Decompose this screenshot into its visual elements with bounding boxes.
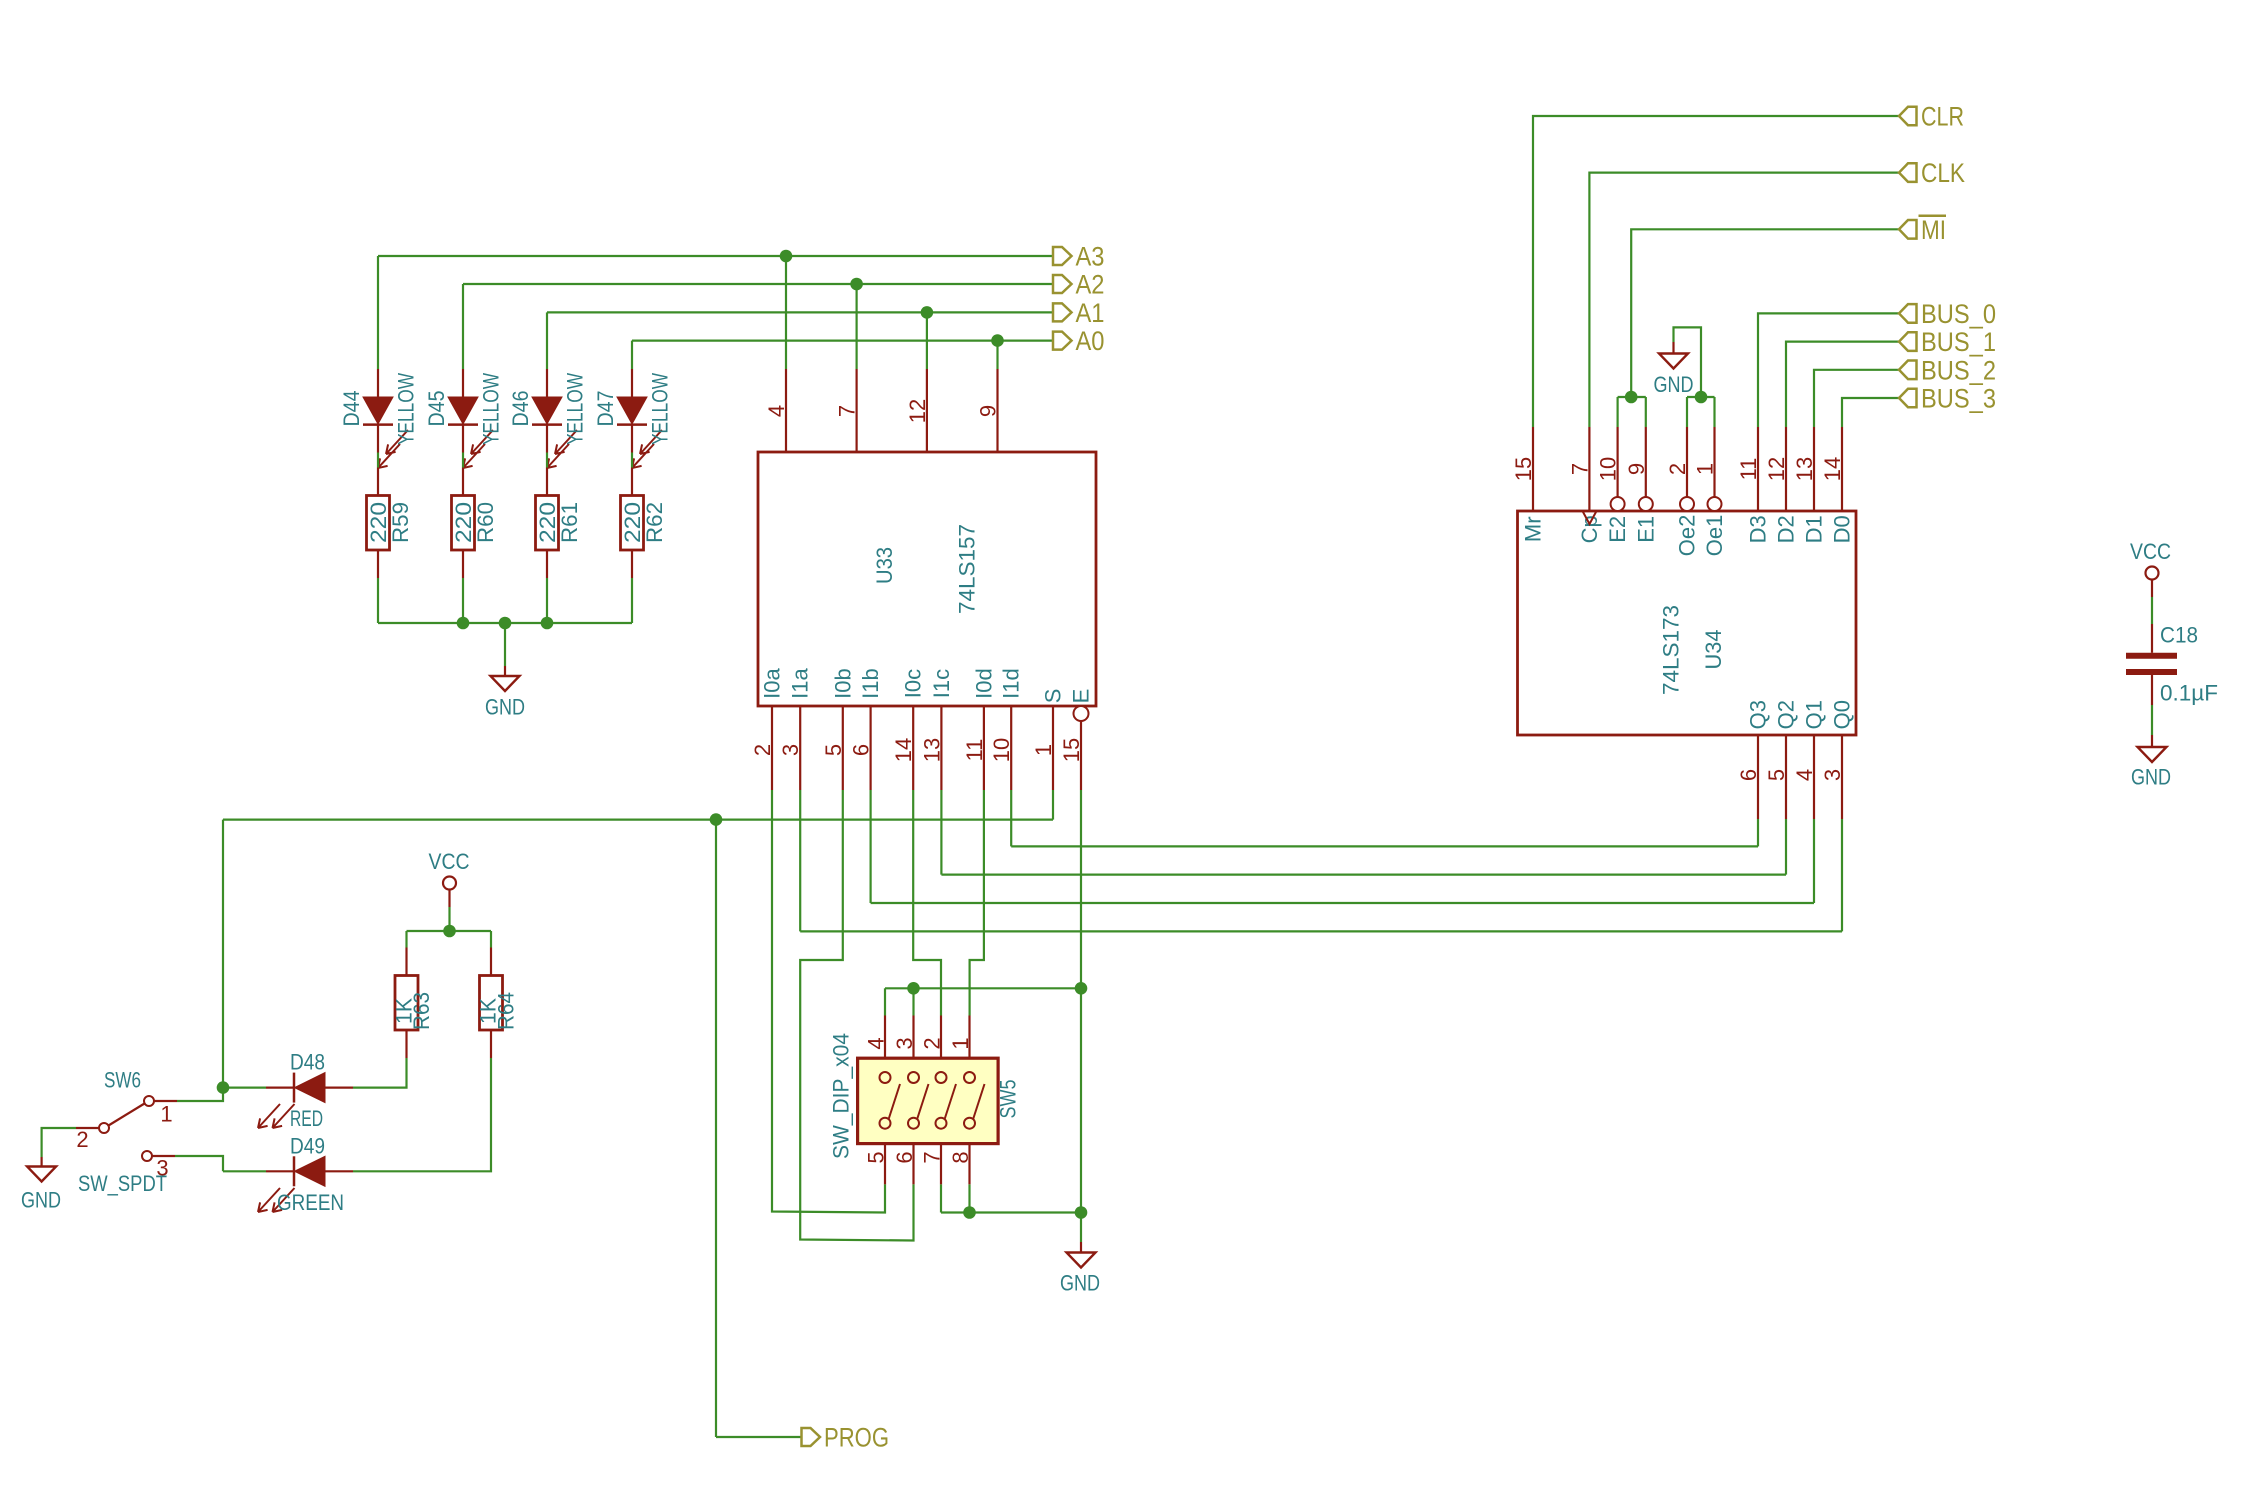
svg-text:14: 14 bbox=[891, 738, 916, 762]
resistor R60 220 bbox=[452, 468, 475, 579]
node A0 junction bbox=[991, 334, 1004, 347]
svg-text:D49: D49 bbox=[290, 1134, 325, 1159]
svg-text:VCC: VCC bbox=[429, 849, 470, 874]
wire A1 to D46 bbox=[546, 312, 548, 369]
wire net CLK bbox=[1589, 173, 1899, 427]
svg-text:6: 6 bbox=[892, 1151, 917, 1163]
svg-text:1: 1 bbox=[1693, 463, 1718, 475]
wire I1 drop Q2 to I1c bbox=[940, 790, 942, 875]
svg-text:15: 15 bbox=[1511, 457, 1536, 481]
junction bbox=[1075, 982, 1088, 995]
svg-text:GND: GND bbox=[485, 695, 525, 720]
svg-text:3: 3 bbox=[778, 744, 803, 756]
hierarchical label PROG bbox=[802, 1423, 890, 1453]
pin 7 (Zb) of U33 bbox=[855, 369, 857, 452]
svg-text:SW5: SW5 bbox=[996, 1080, 1021, 1119]
hierarchical label A0 bbox=[1053, 326, 1105, 356]
svg-text:10: 10 bbox=[1596, 457, 1621, 481]
wire net Q0 to I1a bbox=[800, 930, 1842, 932]
svg-text:5: 5 bbox=[821, 744, 846, 756]
ground GND above U34 bbox=[1654, 342, 1694, 397]
pin 3 (Q0) of U34 bbox=[1841, 735, 1843, 819]
svg-text:Oe1: Oe1 bbox=[1702, 515, 1727, 557]
wire bbox=[631, 453, 633, 468]
wire PROG to SW6 bbox=[222, 820, 224, 1088]
svg-text:A0: A0 bbox=[1076, 326, 1105, 356]
wire A2 to U33 Zb bbox=[855, 284, 857, 369]
svg-text:SW6: SW6 bbox=[104, 1068, 141, 1093]
wire bbox=[377, 578, 379, 623]
svg-text:0.1µF: 0.1µF bbox=[2160, 681, 2218, 706]
svg-text:7: 7 bbox=[1567, 463, 1592, 475]
wire SW5 pin 8 drop bbox=[968, 1184, 970, 1212]
pin 6 (Q3) of U34 bbox=[1757, 735, 1759, 819]
wire net PROG row bbox=[223, 818, 1053, 820]
wire SW5 pin 7 drop bbox=[940, 1184, 942, 1212]
wire SW5 pin 4 drop bbox=[884, 988, 886, 1015]
resistor R63 1K bbox=[395, 948, 418, 1059]
svg-text:2: 2 bbox=[1665, 463, 1690, 475]
wire Oe2-Oe1 tie bbox=[1687, 396, 1715, 398]
svg-text:4: 4 bbox=[864, 1037, 889, 1049]
svg-text:BUS_2: BUS_2 bbox=[1921, 355, 1996, 385]
svg-text:10: 10 bbox=[989, 738, 1014, 762]
pin 4 (Za) of U33 bbox=[785, 369, 787, 452]
wire bbox=[546, 453, 548, 468]
svg-text:R61: R61 bbox=[557, 502, 582, 543]
wire net A0 bbox=[632, 340, 1053, 342]
hierarchical label BUS_2 bbox=[1899, 355, 1996, 385]
svg-text:3: 3 bbox=[1820, 769, 1845, 781]
wire bbox=[546, 578, 548, 623]
power VCC at R63/R64 bbox=[429, 849, 470, 907]
wire E1 drop bbox=[1645, 397, 1647, 427]
switch SW6 SW_SPDT bbox=[76, 1096, 177, 1161]
junction VCC bbox=[443, 925, 456, 938]
wire bbox=[377, 453, 379, 468]
svg-text:I0b: I0b bbox=[830, 668, 855, 699]
wire A0 to D47 bbox=[631, 341, 633, 369]
junction MI/E1/E2 bbox=[1625, 391, 1638, 404]
svg-text:13: 13 bbox=[1792, 457, 1817, 481]
wire A3 to U33 Za bbox=[785, 256, 787, 369]
LED D49 GREEN bbox=[258, 1156, 353, 1212]
wire SW5 pins 3-4 to GND bbox=[885, 987, 1081, 989]
wire to D49 bbox=[223, 1170, 266, 1172]
wire GND column bbox=[1080, 988, 1082, 1242]
node A3 junction bbox=[780, 250, 793, 263]
svg-text:Oe2: Oe2 bbox=[1675, 515, 1700, 557]
svg-text:I1a: I1a bbox=[788, 667, 813, 698]
svg-text:2: 2 bbox=[920, 1037, 945, 1049]
power VCC at C18 bbox=[2130, 539, 2171, 597]
svg-text:2: 2 bbox=[750, 744, 775, 756]
svg-text:RED: RED bbox=[290, 1106, 323, 1131]
LED D48 RED bbox=[258, 1073, 353, 1128]
hierarchical label BUS_0 bbox=[1899, 299, 1996, 329]
wire E2-E1 tie bbox=[1618, 396, 1646, 398]
wire net BUS_0 bbox=[1758, 313, 1899, 427]
hierarchical label BUS_3 bbox=[1899, 384, 1996, 414]
switch SW5 SW_DIP_x04 body bbox=[858, 1058, 999, 1143]
svg-text:R63: R63 bbox=[409, 992, 434, 1030]
pin 10 (E2) of U34 bbox=[1611, 427, 1625, 511]
wire net Q1 to I1b bbox=[871, 902, 1814, 904]
wire VCC row bbox=[407, 930, 492, 932]
wire Q0 drop bbox=[1841, 819, 1843, 931]
svg-text:9: 9 bbox=[1624, 463, 1649, 475]
ground GND at SW6 bbox=[21, 1157, 61, 1213]
ground GND below SW5 bbox=[1060, 1242, 1100, 1296]
svg-text:R59: R59 bbox=[388, 502, 413, 543]
junction bbox=[499, 617, 512, 630]
svg-text:D0: D0 bbox=[1830, 515, 1855, 543]
hierarchical label MI bbox=[1899, 215, 1946, 245]
switch SW5 unit pin 4/5 bbox=[880, 1016, 901, 1185]
svg-text:BUS_3: BUS_3 bbox=[1921, 384, 1996, 414]
clock mark on Cp pin bbox=[1583, 511, 1597, 524]
svg-text:4: 4 bbox=[764, 405, 789, 417]
svg-text:14: 14 bbox=[1820, 457, 1845, 481]
switch SW5 unit pin 2/7 bbox=[936, 1016, 957, 1185]
pin 11 (D3) of U34 bbox=[1757, 427, 1759, 511]
svg-text:5: 5 bbox=[1764, 769, 1789, 781]
svg-text:S: S bbox=[1041, 689, 1066, 704]
svg-text:D46: D46 bbox=[508, 391, 533, 427]
wire GND to Oe1/Oe2 bbox=[1674, 327, 1702, 397]
svg-text:D44: D44 bbox=[339, 391, 364, 427]
pin 15 (E) of U33 inverted bbox=[1074, 706, 1089, 790]
svg-text:A2: A2 bbox=[1076, 270, 1105, 300]
wire LED common to GND bbox=[378, 622, 632, 624]
svg-text:12: 12 bbox=[1764, 457, 1789, 481]
wire net Q2 to I1c bbox=[941, 873, 1786, 875]
svg-text:I1b: I1b bbox=[858, 668, 883, 699]
wire Oe1 drop bbox=[1713, 397, 1715, 427]
wire E to GND column bbox=[1080, 790, 1082, 988]
svg-text:I1d: I1d bbox=[999, 668, 1024, 699]
svg-text:E2: E2 bbox=[1605, 516, 1630, 543]
wire SW5 pins 7-8 to GND bbox=[941, 1211, 1081, 1213]
pin 9 (Zd) of U33 bbox=[996, 369, 998, 452]
LED D45 YELLOW bbox=[448, 369, 493, 468]
wire Q1 drop bbox=[1813, 819, 1815, 903]
svg-text:Q2: Q2 bbox=[1774, 700, 1799, 729]
node A2 junction bbox=[850, 278, 863, 291]
wire SW6 pin1 to node bbox=[177, 1088, 223, 1101]
svg-text:GREEN: GREEN bbox=[277, 1190, 344, 1215]
svg-text:U33: U33 bbox=[872, 547, 897, 584]
wire to D48 bbox=[223, 1086, 266, 1088]
junction bbox=[1075, 1206, 1088, 1219]
svg-text:D47: D47 bbox=[593, 391, 618, 427]
pin 1 (S) of U33 bbox=[1052, 706, 1054, 790]
switch SW5 unit pin 3/6 bbox=[908, 1016, 929, 1185]
wire bbox=[462, 578, 464, 623]
svg-text:VCC: VCC bbox=[2130, 539, 2171, 564]
resistor R64 1K bbox=[480, 948, 503, 1059]
svg-text:C18: C18 bbox=[2160, 623, 2198, 648]
svg-text:I0a: I0a bbox=[760, 667, 785, 698]
svg-text:YELLOW: YELLOW bbox=[648, 373, 673, 445]
svg-text:3: 3 bbox=[892, 1037, 917, 1049]
svg-text:12: 12 bbox=[905, 399, 930, 423]
hierarchical label A3 bbox=[1053, 242, 1105, 272]
wire I1 drop Q0 to I1a bbox=[799, 790, 801, 931]
wire bbox=[631, 578, 633, 623]
svg-text:BUS_1: BUS_1 bbox=[1921, 327, 1996, 357]
svg-text:Q0: Q0 bbox=[1830, 700, 1855, 729]
svg-text:GND: GND bbox=[1060, 1271, 1100, 1296]
wire net BUS_2 bbox=[1814, 370, 1899, 427]
svg-text:CLR: CLR bbox=[1921, 102, 1964, 132]
svg-text:11: 11 bbox=[962, 739, 987, 762]
wire D48 to R63 bbox=[353, 1058, 407, 1088]
wire to PROG label bbox=[716, 1436, 802, 1438]
pin 3 (I1a) of U33 bbox=[799, 706, 801, 790]
resistor R61 220 bbox=[536, 468, 559, 579]
wire SW6 pin3 to D49 bbox=[175, 1156, 223, 1171]
junction bbox=[907, 982, 920, 995]
svg-text:GND: GND bbox=[2131, 765, 2171, 790]
hierarchical label A1 bbox=[1053, 298, 1105, 328]
pin 11 (I0d) of U33 bbox=[983, 706, 985, 790]
svg-text:YELLOW: YELLOW bbox=[563, 373, 588, 445]
wire I0c to SW5 pin 2 bbox=[913, 790, 941, 1016]
svg-text:5: 5 bbox=[864, 1151, 889, 1163]
pin 15 (Mr) of U34 bbox=[1532, 427, 1534, 511]
svg-text:74LS173: 74LS173 bbox=[1659, 605, 1684, 695]
wire net Q3 to I1d bbox=[1011, 845, 1758, 847]
svg-text:1: 1 bbox=[1031, 744, 1056, 756]
wire R64 to VCC row bbox=[490, 931, 492, 948]
svg-text:D3: D3 bbox=[1746, 515, 1771, 543]
svg-text:11: 11 bbox=[1736, 458, 1761, 481]
svg-text:1: 1 bbox=[948, 1037, 973, 1049]
wire A3 to D44 bbox=[377, 256, 379, 369]
svg-text:I1c: I1c bbox=[929, 669, 954, 698]
svg-text:I0d: I0d bbox=[971, 668, 996, 699]
pin 12 (Zc) of U33 bbox=[926, 369, 928, 452]
wire Q2 drop bbox=[1785, 819, 1787, 875]
pin 12 (D2) of U34 bbox=[1785, 427, 1787, 511]
svg-text:D2: D2 bbox=[1774, 515, 1799, 543]
svg-text:R62: R62 bbox=[642, 502, 667, 543]
wire net A2 bbox=[463, 283, 1053, 285]
svg-text:U34: U34 bbox=[1701, 630, 1726, 670]
pin 6 (I1b) of U33 bbox=[869, 706, 871, 790]
wire VCC to C18 bbox=[2151, 597, 2153, 624]
wire A0 to U33 Zd bbox=[996, 341, 998, 369]
wire net MI bbox=[1631, 229, 1899, 397]
wire SW6 pin2 to GND bbox=[42, 1128, 76, 1157]
svg-text:I0c: I0c bbox=[901, 669, 926, 698]
junction bbox=[457, 617, 470, 630]
hierarchical label CLR bbox=[1899, 102, 1964, 132]
junction bbox=[963, 1206, 976, 1219]
svg-text:GND: GND bbox=[1654, 372, 1694, 397]
wire net CLR bbox=[1533, 116, 1899, 427]
svg-text:1: 1 bbox=[160, 1102, 172, 1127]
wire E2 drop bbox=[1616, 397, 1618, 427]
svg-text:8: 8 bbox=[948, 1151, 973, 1163]
svg-text:GND: GND bbox=[21, 1188, 61, 1213]
pin 14 (I0c) of U33 bbox=[912, 706, 914, 790]
svg-text:E1: E1 bbox=[1633, 516, 1658, 543]
wire PROG vertical bbox=[715, 820, 717, 1437]
svg-text:YELLOW: YELLOW bbox=[394, 373, 419, 445]
svg-text:R64: R64 bbox=[494, 992, 519, 1030]
svg-text:Cp: Cp bbox=[1577, 515, 1602, 543]
pin 1 (Oe1) of U34 bbox=[1708, 427, 1722, 511]
capacitor C18 0.1uF bbox=[2126, 624, 2177, 705]
svg-text:6: 6 bbox=[1736, 769, 1761, 781]
ground GND at C18 bbox=[2131, 735, 2171, 790]
svg-text:4: 4 bbox=[1792, 769, 1817, 781]
svg-text:Mr: Mr bbox=[1521, 516, 1546, 542]
svg-text:6: 6 bbox=[849, 744, 874, 756]
pin 9 (E1) of U34 bbox=[1639, 427, 1653, 511]
svg-text:9: 9 bbox=[976, 405, 1001, 417]
switch SW5 unit pin 1/8 bbox=[964, 1016, 985, 1185]
wire Q3 drop bbox=[1757, 819, 1759, 846]
svg-text:D45: D45 bbox=[424, 391, 449, 427]
pin 10 (I1d) of U33 bbox=[1010, 706, 1012, 790]
svg-text:7: 7 bbox=[920, 1151, 945, 1163]
svg-text:D1: D1 bbox=[1802, 515, 1827, 543]
wire I0d to SW5 pin 1 bbox=[970, 790, 984, 1016]
resistor R59 220 bbox=[367, 468, 390, 579]
wire I0b to SW5 pin 6 bbox=[800, 790, 913, 1241]
svg-text:7: 7 bbox=[835, 405, 860, 417]
svg-text:PROG: PROG bbox=[824, 1423, 889, 1453]
pin 13 (I1c) of U33 bbox=[940, 706, 942, 790]
wire C18 to GND bbox=[2151, 705, 2153, 735]
svg-text:Q3: Q3 bbox=[1746, 700, 1771, 729]
svg-text:2: 2 bbox=[76, 1127, 88, 1152]
wire Oe2 drop bbox=[1686, 397, 1688, 427]
wire I1 drop Q1 to I1b bbox=[869, 790, 871, 903]
hierarchical label CLK bbox=[1899, 158, 1965, 188]
svg-text:13: 13 bbox=[919, 738, 944, 762]
IC U34 74LS173 body bbox=[1518, 511, 1857, 735]
svg-text:A1: A1 bbox=[1076, 298, 1105, 328]
node A1 junction bbox=[921, 306, 934, 319]
pin 5 (I0b) of U33 bbox=[842, 706, 844, 790]
wire VCC stub bbox=[448, 907, 450, 931]
wire I1 drop Q3 to I1d bbox=[1010, 790, 1012, 846]
svg-text:15: 15 bbox=[1059, 738, 1084, 762]
LED D46 YELLOW bbox=[532, 369, 577, 468]
wire net BUS_1 bbox=[1786, 342, 1899, 427]
svg-text:SW_SPDT: SW_SPDT bbox=[78, 1171, 167, 1196]
pin 2 (Oe2) of U34 bbox=[1680, 427, 1694, 511]
wire bbox=[462, 453, 464, 468]
svg-text:Q1: Q1 bbox=[1802, 700, 1827, 729]
IC U33 74LS157 body bbox=[758, 452, 1096, 706]
svg-text:MI: MI bbox=[1921, 215, 1946, 245]
resistor R62 220 bbox=[621, 468, 644, 579]
wire SW5 pin 3 drop bbox=[912, 988, 914, 1015]
wire I0a to SW5 pin 5 bbox=[772, 790, 885, 1213]
pin 2 (I0a) of U33 bbox=[771, 706, 773, 790]
wire S pin drop bbox=[1052, 790, 1054, 820]
svg-text:74LS157: 74LS157 bbox=[954, 524, 979, 614]
wire A2 to D45 bbox=[462, 284, 464, 369]
pin 7 (Cp) of U34 bbox=[1588, 427, 1590, 511]
svg-text:D48: D48 bbox=[290, 1050, 325, 1075]
svg-text:CLK: CLK bbox=[1921, 158, 1965, 188]
svg-text:YELLOW: YELLOW bbox=[479, 373, 504, 445]
junction GND/Oe bbox=[1695, 391, 1708, 404]
pin 14 (D0) of U34 bbox=[1841, 427, 1843, 511]
pin 5 (Q2) of U34 bbox=[1785, 735, 1787, 819]
svg-text:R60: R60 bbox=[473, 502, 498, 543]
hierarchical label A2 bbox=[1053, 270, 1105, 300]
svg-text:BUS_0: BUS_0 bbox=[1921, 299, 1996, 329]
hierarchical label BUS_1 bbox=[1899, 327, 1996, 357]
svg-text:A3: A3 bbox=[1076, 242, 1105, 272]
wire net A1 bbox=[547, 311, 1053, 313]
junction PROG bbox=[710, 813, 723, 826]
wire R63 to VCC row bbox=[405, 931, 407, 948]
pin 13 (D1) of U34 bbox=[1813, 427, 1815, 511]
LED D47 YELLOW bbox=[617, 369, 662, 468]
junction bbox=[541, 617, 554, 630]
wire D49 to R64 bbox=[353, 1058, 491, 1171]
wire A1 to U33 Zc bbox=[926, 312, 928, 369]
wire net A3 bbox=[378, 255, 1053, 257]
LED D44 YELLOW bbox=[363, 369, 408, 468]
junction SW6 node bbox=[217, 1081, 230, 1094]
ground GND of LED bank bbox=[485, 666, 525, 720]
pin 4 (Q1) of U34 bbox=[1813, 735, 1815, 819]
svg-text:SW_DIP_x04: SW_DIP_x04 bbox=[829, 1033, 854, 1159]
wire net BUS_3 bbox=[1842, 398, 1899, 427]
wire to GND bbox=[504, 623, 506, 666]
svg-text:E: E bbox=[1069, 689, 1094, 704]
